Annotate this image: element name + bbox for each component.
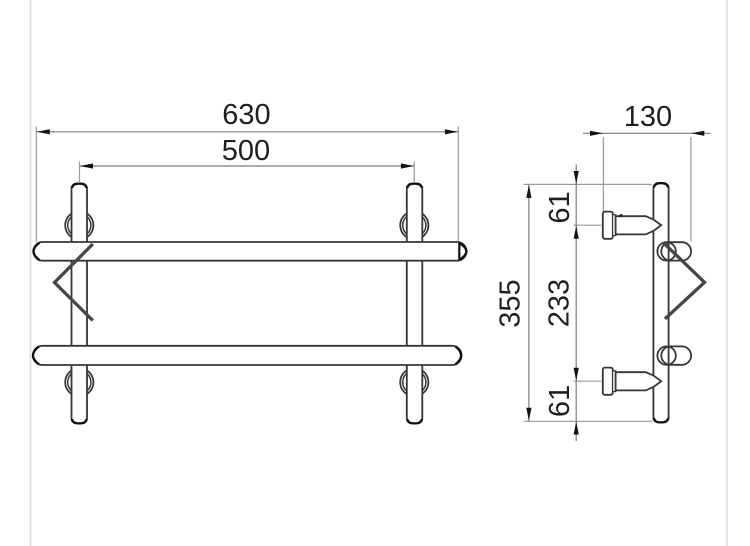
upper rail right weld line <box>458 243 460 261</box>
bracket2 flange <box>603 368 613 395</box>
extension line 630 left <box>35 127 37 243</box>
dimension line 630 <box>37 131 459 133</box>
left post <box>72 184 88 424</box>
upper side rail stadium <box>661 242 691 260</box>
svg-text:630: 630 <box>222 99 270 131</box>
lower rail <box>33 346 462 365</box>
wall flange upper-left inner ring <box>68 214 91 237</box>
bracket1 flange <box>603 212 613 239</box>
extension line bracket2 center <box>574 380 602 382</box>
arrow 500 left <box>80 163 93 168</box>
extension line bracket1 center <box>574 224 602 226</box>
dimension line 130 <box>583 132 711 134</box>
lower rail right end cap <box>456 346 462 364</box>
left page border <box>30 0 32 546</box>
arrow 233 top <box>574 226 579 239</box>
side bar top cap <box>654 183 668 187</box>
wall flange lower-right outer ring <box>400 368 428 396</box>
arrow 630 right <box>445 129 458 134</box>
upper rail <box>34 242 467 261</box>
dimension line 61-233-61 <box>575 165 577 442</box>
extension line 355 bottom <box>524 420 653 422</box>
svg-text:355: 355 <box>495 279 527 327</box>
svg-text:500: 500 <box>222 135 270 167</box>
svg-text:233: 233 <box>544 279 576 327</box>
lower rail left end cap <box>33 346 39 364</box>
svg-text:61: 61 <box>544 191 576 223</box>
bracket2 flange lip <box>613 371 616 392</box>
side bar bottom cap <box>654 418 668 422</box>
bracket1 shaft and cone <box>616 216 662 234</box>
arrow 61 bottom <box>574 422 579 435</box>
extension line 355 top <box>524 183 653 185</box>
extension line 500 left <box>79 162 81 183</box>
left post bottom cap <box>72 419 87 423</box>
wall flange upper-right outer ring <box>400 211 428 239</box>
right post bottom cap <box>407 419 422 423</box>
dimension line 355 <box>528 184 530 421</box>
bracket1 mark <box>616 214 623 217</box>
arrow 61 top <box>574 171 579 184</box>
dimension line 500 <box>80 165 414 167</box>
arrow 500 right <box>401 163 414 168</box>
right post <box>407 184 423 424</box>
wall flange upper-right inner ring <box>403 214 426 237</box>
upper side rail circle <box>657 242 675 260</box>
lower side rail circle <box>657 346 675 364</box>
svg-text:130: 130 <box>624 101 672 133</box>
upper rail left end cap <box>34 243 40 261</box>
wall flange lower-left outer ring <box>65 368 93 396</box>
left post top cap <box>72 184 87 188</box>
arrow 130 left <box>590 131 603 136</box>
upper rail right end dome <box>460 243 467 259</box>
wall flange upper-left outer ring <box>65 211 93 239</box>
arrow 355 top <box>526 185 531 198</box>
wall flange lower-right inner ring <box>403 371 426 394</box>
extension line 130 right <box>690 137 692 242</box>
bracket1 flange lip <box>613 215 616 236</box>
side bar <box>653 183 668 423</box>
extension line 500 right <box>413 162 415 183</box>
side break zigzag <box>663 242 705 318</box>
right page border <box>726 0 728 546</box>
lower side rail stadium <box>661 346 691 364</box>
arrow 130 right <box>691 131 704 136</box>
arrow 355 bottom <box>526 408 531 421</box>
svg-text:61: 61 <box>544 385 576 417</box>
extension line 630 right <box>457 127 459 243</box>
front break zigzag <box>55 244 93 321</box>
right post top cap <box>407 184 422 188</box>
bracket2 shaft and cone <box>616 372 662 390</box>
extension line 130 left <box>602 137 604 211</box>
arrow 233 bottom <box>574 368 579 381</box>
wall flange lower-left inner ring <box>68 371 91 394</box>
arrow 630 left <box>37 129 50 134</box>
